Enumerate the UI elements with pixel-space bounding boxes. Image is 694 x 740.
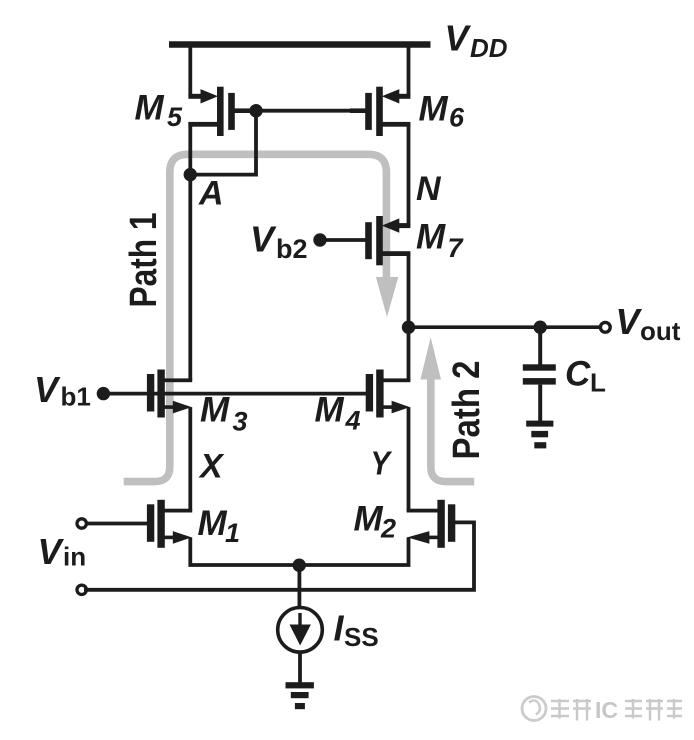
svg-text:X: X (198, 448, 225, 486)
grey path 1 arrowhead (376, 277, 398, 317)
wire node Y: M4 source to M2 drain (407, 407, 411, 510)
svg-text:M: M (200, 391, 230, 430)
label M6 (419, 90, 466, 133)
svg-text:V: V (38, 531, 65, 572)
svg-text:b1: b1 (61, 382, 91, 412)
node Vb2 terminal dot (313, 233, 326, 246)
wire Vb1 to M3/M4 gates (103, 392, 368, 396)
node tail junction dot (293, 559, 306, 572)
wire ISS to ground (298, 652, 302, 684)
svg-text:out: out (640, 316, 681, 346)
grey path 2 arrowhead (420, 337, 441, 379)
svg-text:Path 1: Path 1 (123, 213, 165, 308)
svg-text:V: V (616, 301, 643, 342)
svg-text:IC: IC (595, 697, 618, 723)
svg-text:6: 6 (449, 103, 465, 133)
wire M6 drain to M7 source (node N) (407, 122, 411, 226)
svg-text:5: 5 (167, 102, 183, 132)
label M2 (354, 500, 397, 544)
label VDD (445, 18, 508, 64)
svg-text:b2: b2 (276, 234, 308, 264)
svg-text:M: M (198, 504, 228, 543)
terminal Vin- open circle (77, 585, 86, 594)
node A dot (184, 168, 197, 181)
wire diode connection from gate junction to node A (190, 111, 256, 175)
node CL junction dot (534, 321, 547, 334)
svg-text:Y: Y (371, 445, 393, 482)
svg-text:M: M (354, 500, 384, 539)
svg-text:M: M (416, 218, 446, 257)
svg-text:3: 3 (233, 407, 248, 437)
transistor M3 (NMOS cascode) (147, 370, 192, 418)
VDD supply rail (169, 41, 431, 48)
label ISS (334, 608, 379, 653)
label Vout (616, 301, 681, 346)
watermark text (mock 模拟IC设计实践) (551, 699, 591, 721)
capacitor CL (523, 364, 556, 384)
node Vb1 terminal dot (97, 387, 110, 400)
svg-text:A: A (198, 175, 224, 213)
svg-text:V: V (34, 369, 61, 410)
ground (under ISS) (286, 682, 314, 709)
svg-text:N: N (416, 170, 442, 208)
terminal Vin+ open circle (77, 519, 86, 528)
node gate junction dot (249, 104, 262, 117)
wire node X: M3 source to M1 drain (188, 407, 192, 510)
wire M5 gate to M6 gate (256, 109, 368, 113)
svg-text:Path 2: Path 2 (446, 361, 488, 460)
wire capacitor bottom plate to ground (538, 385, 542, 422)
wire VDD rail to M6 source (407, 45, 411, 97)
svg-text:1: 1 (225, 518, 240, 548)
wire tail node to ISS (297, 565, 301, 609)
grey signal path 2 arrow (direct cascode path to output) (431, 379, 474, 482)
watermark logo circle (522, 697, 546, 721)
wire M7 drain down to output node (407, 254, 411, 328)
current source ISS (278, 608, 323, 653)
wire Vb2 to M7 gate (320, 238, 367, 242)
transistor M1 (NMOS input) (147, 500, 192, 548)
transistor M7 (PMOS cascode) (365, 216, 410, 265)
grey signal path 1 arrow (via M5 mirror to output) (124, 154, 387, 481)
transistor M2 (NMOS input, mirrored) (407, 500, 456, 548)
svg-text:M: M (419, 90, 449, 129)
svg-text:7: 7 (448, 233, 465, 263)
svg-text:DD: DD (470, 33, 508, 63)
terminal Vout open circle (600, 322, 610, 332)
svg-text:SS: SS (344, 622, 379, 652)
label CL (565, 355, 606, 398)
svg-text:4: 4 (345, 406, 361, 436)
label M7 (416, 218, 465, 264)
wire output node to Vout terminal (409, 325, 601, 329)
transistor M6 (PMOS, mirrored) (350, 87, 410, 136)
svg-text:L: L (590, 368, 606, 398)
svg-text:M: M (135, 89, 165, 128)
wire Vin+ terminal to M1 gate (84, 522, 150, 526)
node output junction dot (402, 321, 415, 334)
svg-text:I: I (334, 608, 345, 649)
wire M4 drain up to output node (407, 327, 411, 380)
label M5 (135, 89, 184, 133)
label Vb2 (250, 219, 308, 265)
wire tail node: M1/M2 sources (190, 537, 408, 565)
transistor M5 (PMOS, diode-connected) (188, 87, 256, 136)
wire CL junction to capacitor top plate (538, 327, 542, 366)
svg-text:V: V (250, 219, 277, 260)
svg-text:C: C (565, 355, 591, 394)
label M4 (315, 391, 361, 436)
wire VDD rail to M5 source (188, 45, 192, 97)
svg-text:in: in (63, 542, 86, 572)
ground (under CL) (526, 421, 553, 449)
label M3 (200, 391, 248, 437)
label Vb1 (34, 369, 91, 412)
label M1 (198, 504, 241, 548)
svg-text:V: V (445, 18, 472, 59)
svg-text:M: M (315, 391, 345, 430)
transistor M4 (NMOS cascode) (366, 370, 411, 418)
svg-text:2: 2 (380, 514, 396, 544)
wire Vin- terminal to M2 gate (84, 522, 474, 589)
wire M5 drain through node A down to M3 drain (188, 122, 192, 380)
label Vin (38, 531, 87, 572)
